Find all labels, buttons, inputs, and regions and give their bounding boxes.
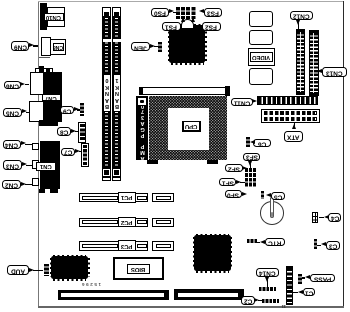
DIMM notch BANK0 <box>103 39 111 42</box>
jumper C6 <box>246 137 250 148</box>
pin strip C2 <box>262 299 279 303</box>
CPU socket pin1 box <box>137 97 147 106</box>
connector CN10 white housing <box>47 7 66 27</box>
connector feet <box>39 189 45 193</box>
connector CN5 port <box>29 101 44 122</box>
jumper C5 <box>261 191 265 199</box>
callout AUD <box>7 265 29 275</box>
PCI slot PC2 <box>79 218 149 227</box>
jumper PASS <box>298 274 302 284</box>
chip U1 rounded <box>249 11 274 27</box>
slot bar 2 <box>174 289 244 300</box>
small connector above CN7 <box>35 68 53 74</box>
callout CN2 <box>2 180 21 189</box>
pin header C9 <box>80 103 85 117</box>
connector stub CN4 <box>32 143 39 151</box>
connector bits between groups <box>39 120 58 126</box>
callout FS2 <box>202 22 221 31</box>
CPU socket body pin grid <box>149 96 228 161</box>
callout SF0 <box>225 190 242 198</box>
jumper C4 grid <box>312 212 319 224</box>
callout CN12 <box>290 11 313 21</box>
slot CN13 <box>309 30 319 96</box>
jumper JEN <box>158 42 162 53</box>
callout CN9 <box>11 41 29 50</box>
board outline right edge <box>343 1 345 307</box>
label PC2 <box>118 217 135 228</box>
callout CN6 <box>4 81 21 89</box>
callout JEN <box>131 42 150 51</box>
DIMM slot BANK0 <box>102 7 111 182</box>
crystal dome <box>181 19 194 29</box>
PCI slot PC3 <box>79 241 149 250</box>
callout C9 <box>60 106 74 114</box>
callout PASS <box>310 274 335 283</box>
callout SF3 <box>243 153 260 161</box>
slot CN12 <box>296 29 305 95</box>
clock generator chip <box>171 24 204 65</box>
callout FS1 <box>162 22 181 31</box>
board outline left edge <box>38 1 39 307</box>
CPU socket top bar <box>139 87 230 95</box>
label BIOS <box>127 264 150 274</box>
DIMM bottom cap BANK0 <box>102 168 111 182</box>
callout SF1 <box>219 178 236 186</box>
callout CN14 <box>256 268 279 277</box>
jumper block FS <box>176 7 196 19</box>
callout CN3 <box>3 160 23 169</box>
board outline bottom edge <box>38 306 344 307</box>
text 15296 <box>79 282 102 287</box>
DIMM bottom cap BANK1 <box>112 168 121 182</box>
connector body black CN4/CN3/CN2 <box>40 141 60 189</box>
label BANK0 <box>103 74 112 112</box>
label PC3 <box>118 240 135 251</box>
battery circle <box>260 201 284 225</box>
connector ATX <box>261 109 320 123</box>
connector stub CN2 <box>32 178 39 186</box>
callout C2 <box>241 296 254 305</box>
CPU socket inner square <box>168 108 209 150</box>
callout ATX <box>284 131 303 142</box>
pin header C7 <box>81 143 89 167</box>
slot bar 1 <box>58 290 169 301</box>
jumper AUD <box>44 264 49 276</box>
connector stub CN3 <box>32 160 39 169</box>
callout FS3 <box>204 8 223 17</box>
label CN8 <box>53 43 64 51</box>
callout C3 <box>326 241 340 250</box>
chip VIDEO <box>248 48 276 66</box>
label CN1 <box>36 162 56 171</box>
pin header C8 <box>78 122 87 143</box>
connector CN8 housing <box>41 37 52 56</box>
callout FS0 <box>151 8 170 17</box>
text 11 <box>281 305 286 309</box>
connector body black CN7/CN5 <box>44 72 62 123</box>
callout CN11 <box>231 98 252 107</box>
chip U3 rounded <box>249 68 274 85</box>
DIMM slot BANK1 <box>112 7 121 182</box>
chip U2 rounded <box>249 30 274 46</box>
CPU socket feet <box>147 160 158 164</box>
jumper C3 <box>314 239 317 250</box>
DIMM top cap BANK1 <box>112 7 121 17</box>
callout C1 <box>303 288 315 296</box>
callout CN5 <box>3 108 22 117</box>
PCI slot PC1 <box>79 193 149 202</box>
DIMM top cap BANK0 <box>102 7 111 17</box>
label CN10 <box>44 13 64 20</box>
audio chip <box>53 255 86 281</box>
connector CN7 port <box>30 72 45 95</box>
callout RTC <box>265 238 285 246</box>
connector CN11 bar <box>257 96 318 104</box>
board outline top edge <box>38 1 344 2</box>
callout CN13 <box>322 67 347 78</box>
southbridge chip <box>196 234 229 273</box>
wire top line of port group <box>39 57 51 58</box>
jumper block SF <box>245 168 257 187</box>
pin header CN14 <box>259 287 276 292</box>
battery clip <box>270 197 274 218</box>
callout SF2 <box>225 164 243 172</box>
callout C4 <box>328 213 341 222</box>
CPU socket label band AMP PGA370 <box>136 96 149 161</box>
label BANK1 <box>113 74 122 112</box>
DIMM notch BANK1 <box>113 39 121 42</box>
callout C7 <box>61 148 75 156</box>
BIOS box <box>113 257 163 280</box>
label CPU <box>182 121 201 132</box>
callout C6 <box>253 139 272 147</box>
callout C5 <box>271 192 285 200</box>
callout C8 <box>57 127 71 136</box>
connector CN10 body black <box>40 3 48 30</box>
jumper RTC <box>247 239 257 243</box>
callout CN4 <box>3 140 22 149</box>
connector C1 vertical bar <box>286 266 293 305</box>
label CN7 <box>42 94 61 102</box>
label VIDEO <box>250 52 273 63</box>
label PC1 <box>118 192 135 203</box>
